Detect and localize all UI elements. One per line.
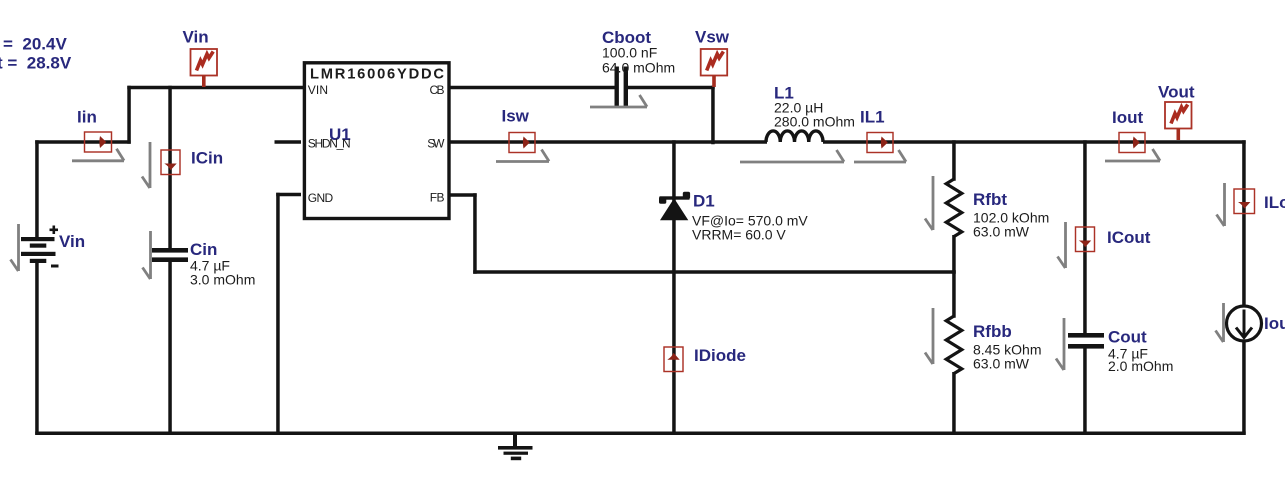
node annotation Vmin = 20.4V [3,35,67,54]
svg-text:IL1: IL1 [860,108,885,127]
pin GND [308,191,334,205]
current arrow (gray) under Isw [496,150,549,162]
wire Cin branch lower vertical [168,262,172,435]
label Vin (source) [59,232,85,251]
svg-text:= 20.4V: = 20.4V [3,35,67,54]
current probe IL1 [867,133,893,153]
wire Rfbb bottom stub vertical [952,372,956,435]
current arrow (gray) at Cin [143,231,151,279]
svg-text:ILoad: ILoad [1264,193,1285,212]
value Cout 2.0 mOhm [1108,358,1173,374]
current arrow (gray) at ICout [1058,222,1066,268]
op-amp U1 LMR16006YDDC box [304,63,449,219]
wire riser Iin-to-top vertical [127,86,131,144]
svg-text:Iout: Iout [1112,108,1143,127]
svg-text:LMR16006YDDC: LMR16006YDDC [310,66,444,82]
wire SW row horizontal [449,140,767,144]
wire Rfbb top stub vertical [952,270,956,318]
wire battery bottom vertical [35,262,39,435]
label Iout [1112,108,1143,127]
svg-text:Vin: Vin [59,232,85,251]
svg-text:IDiode: IDiode [694,346,746,365]
wire GND branch vertical [276,193,280,435]
current arrow (gray) at ILoad [1217,183,1225,226]
svg-text:Iin: Iin [77,108,97,127]
wire Rfbt top stub vertical [952,140,956,181]
value Cin 3.0 mOhm [190,272,255,288]
label IDiode [694,346,746,365]
label Rfbb [973,322,1012,341]
voltage probe Vin [191,49,218,87]
current arrow (gray) under IL1 [854,150,906,162]
current arrow (gray) under Cboot [590,95,647,107]
value Rfbt 102.0 kOhm [973,210,1049,226]
pin VIN [308,83,328,97]
wire Rfbt-feedback stub vertical [952,235,956,274]
pin FB [430,191,445,205]
svg-text:SHDN_N: SHDN_N [308,137,351,151]
svg-text:CB: CB [430,83,445,97]
value Cout 4.7 uF [1108,346,1148,362]
current probe ICout [1076,227,1095,252]
current probe Iin [85,132,112,152]
label D1 [693,192,715,211]
resistor Rfbt [946,179,962,237]
battery source Vin [21,226,59,268]
svg-text:63.0 mW: 63.0 mW [973,224,1030,240]
svg-text:100.0 nF: 100.0 nF [602,45,657,61]
current source Iout (load) [1227,306,1262,341]
capacitor Cin [152,248,188,262]
svg-text:Vout: Vout [1158,83,1195,102]
label IL1 [860,108,885,127]
current arrow (gray) at Rfbt [925,176,933,230]
svg-text:280.0 mOhm: 280.0 mOhm [774,114,855,130]
wire load branch upper vertical [1242,140,1246,306]
svg-text:Isw: Isw [502,107,530,126]
value Cboot 100.0 nF [602,45,657,61]
wire Cin branch upper vertical [168,86,172,249]
svg-text:ICin: ICin [191,149,223,168]
label Vout [1158,83,1195,102]
wire Cboot right horizontal [628,86,715,90]
svg-text:Vsw: Vsw [695,28,730,47]
svg-text:Cin: Cin [190,240,217,259]
svg-text:GND: GND [308,191,334,205]
label L1 [774,84,794,103]
current probe ILoad [1234,189,1255,214]
value Cin 4.7 uF [190,258,230,274]
current arrow (gray) at Iout source [1216,303,1224,342]
current arrow (gray) under Iout [1105,149,1160,161]
label Rfbt [973,190,1007,209]
wire feedback net horizontal [473,270,956,274]
svg-text:63.0 mW: 63.0 mW [973,356,1030,372]
label Isw [502,107,530,126]
svg-text:FB: FB [430,191,445,205]
label Iin [77,108,97,127]
value L1 22.0 uH [774,100,823,116]
svg-text:ICout: ICout [1107,228,1151,247]
capacitor Cboot (series plates) [615,67,629,108]
value L1 280.0 mOhm [774,114,855,130]
svg-text:VIN: VIN [308,83,328,97]
label ICout [1107,228,1151,247]
capacitor Cout [1068,333,1104,349]
label U1 [329,125,351,144]
wire bottom ground net horizontal [35,432,1246,436]
node annotation Vmax = 28.8V [0,54,72,73]
wire output row horizontal [823,140,1246,144]
svg-text:Rfbt: Rfbt [973,190,1007,209]
wire FB stub horizontal [449,193,477,197]
value Cboot 64.0 mOhm [602,60,675,76]
label Iout source (clipped) [1264,314,1285,333]
diode D1 [659,192,690,221]
current arrow (gray) under L1 [740,150,844,162]
label Cboot [602,28,651,47]
wire GND stub horizontal [276,193,301,197]
inductor L1 [766,131,823,142]
wire diode branch vertical [672,140,676,435]
wire FB riser vertical [473,193,477,274]
value D1 VF [692,213,808,229]
wire Cout branch lower vertical [1083,349,1087,435]
wire SHDN_N stub [275,140,302,144]
resistor Rfbb [946,316,962,374]
ground [498,433,533,460]
value Rfbb 8.45 kOhm [973,342,1041,358]
wire battery top vertical [35,140,39,238]
current arrow (gray) at source Vin [11,224,19,271]
wire load branch lower vertical [1242,340,1246,435]
label Vsw [695,28,730,47]
value D1 VRRM [692,227,786,243]
svg-text:Rfbb: Rfbb [973,322,1012,341]
value Rfbb 63.0 mW [973,356,1030,372]
label Cout [1108,328,1147,347]
svg-text:t = 28.8V: t = 28.8V [0,54,72,73]
wire top VIN net horizontal [127,86,303,90]
current probe Iout [1119,133,1145,153]
voltage probe Vout [1165,102,1192,140]
current probe Isw [509,133,535,153]
pin SW [427,137,445,151]
svg-text:VRRM= 60.0 V: VRRM= 60.0 V [692,227,786,243]
wire Cout branch upper vertical [1083,140,1087,333]
voltage probe Vsw [701,49,728,87]
label ILoad (clipped) [1264,193,1285,212]
label Vin (probe) [183,28,209,47]
label Cin [190,240,217,259]
current arrow (gray) under Iin [72,149,124,161]
wire CB horizontal [449,86,615,90]
svg-text:64.0 mOhm: 64.0 mOhm [602,60,675,76]
wire Vsw riser vertical [711,86,715,145]
svg-text:Vin: Vin [183,28,209,47]
pin CB [430,83,445,97]
wire Iin horizontal [35,140,131,144]
label ICin [191,149,223,168]
current arrow (gray) at ICin [142,142,150,188]
svg-text:2.0 mOhm: 2.0 mOhm [1108,358,1173,374]
svg-text:SW: SW [427,137,445,151]
current probe ICin [161,150,180,175]
value Rfbt 63.0 mW [973,224,1030,240]
current arrow (gray) at Cout [1056,318,1064,370]
svg-text:3.0 mOhm: 3.0 mOhm [190,272,255,288]
current arrow (gray) at Rfbb [925,308,933,364]
svg-text:Cout: Cout [1108,328,1147,347]
pin SHDN_N [308,137,351,151]
svg-text:Iout: Iout [1264,314,1285,333]
current probe IDiode [664,347,683,372]
svg-text:D1: D1 [693,192,715,211]
